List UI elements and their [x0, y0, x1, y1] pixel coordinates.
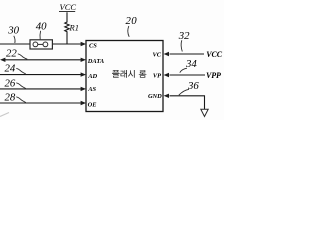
svg-text:34: 34 — [185, 58, 197, 70]
svg-text:OE: OE — [88, 101, 97, 108]
svg-text:VCC: VCC — [206, 50, 222, 59]
svg-text:22: 22 — [6, 47, 17, 59]
svg-text:20: 20 — [126, 15, 138, 27]
svg-text:36: 36 — [187, 80, 199, 92]
svg-text:VP: VP — [153, 72, 161, 79]
svg-text:AD: AD — [87, 73, 97, 80]
svg-text:26: 26 — [5, 77, 16, 89]
svg-text:VPP: VPP — [206, 71, 221, 80]
svg-text:DATA: DATA — [87, 58, 104, 65]
svg-text:R1: R1 — [69, 23, 79, 33]
svg-text:CS: CS — [89, 42, 97, 49]
svg-text:40: 40 — [36, 20, 47, 32]
svg-text:AS: AS — [87, 86, 96, 93]
svg-text:VC: VC — [152, 51, 161, 58]
svg-text:VCC: VCC — [60, 2, 77, 12]
svg-text:30: 30 — [7, 25, 19, 37]
svg-text:32: 32 — [178, 30, 190, 42]
svg-text:GND: GND — [148, 93, 162, 100]
svg-text:28: 28 — [5, 92, 16, 104]
svg-text:24: 24 — [5, 63, 16, 75]
